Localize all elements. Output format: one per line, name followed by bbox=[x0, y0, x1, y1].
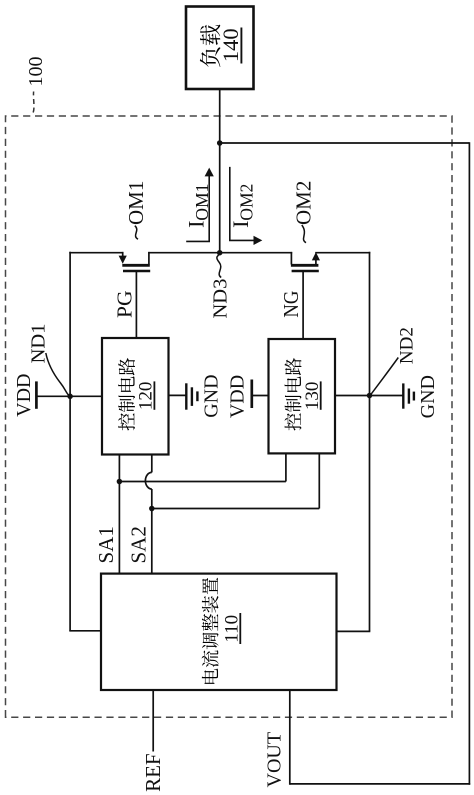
wire: NG gate line (control box 130 to OM2 gate) bbox=[302, 271, 304, 339]
svg-text:ND3: ND3 bbox=[209, 279, 231, 319]
label SA2 bbox=[126, 526, 150, 563]
svg-text:ND2: ND2 bbox=[396, 327, 417, 364]
wire: load box to VOUT node junction bbox=[219, 89, 221, 143]
svg-text:100: 100 bbox=[25, 57, 47, 87]
wire: bottom horizontal line (110 box to OM2 source, node ND2) bbox=[337, 252, 371, 632]
label NG bbox=[279, 291, 303, 318]
svg-text:140: 140 bbox=[218, 28, 243, 62]
label SA1 bbox=[94, 526, 118, 563]
wire: REF input with terminal tick bbox=[152, 690, 154, 752]
load box (负载 140) bbox=[186, 7, 254, 90]
wire: node ND1 down to control box 120 bbox=[70, 395, 102, 397]
junction dot: node ND2 bbox=[367, 393, 373, 399]
svg-text:NG: NG bbox=[279, 291, 303, 318]
power symbol VDD (above control box 130) bbox=[227, 375, 269, 418]
wire: VOUT net rail (right, bottom, left loop) bbox=[219, 142, 470, 785]
wire: PG gate line (control box 120 to OM1 gate) bbox=[135, 271, 137, 338]
control circuit box 130 (控制电路 130) bbox=[269, 339, 336, 453]
svg-text:VDD: VDD bbox=[13, 374, 35, 417]
ground symbol GND (at node ND2) bbox=[370, 375, 440, 418]
svg-text:GND: GND bbox=[417, 375, 439, 418]
wire: top horizontal line (110 box to OM1 source, node ND1) bbox=[69, 252, 101, 631]
label ND3 with squiggle leader bbox=[209, 254, 231, 319]
svg-text:SA1: SA1 bbox=[94, 526, 118, 563]
svg-text:REF: REF bbox=[141, 753, 165, 792]
ground symbol GND (below control box 120) bbox=[169, 374, 223, 417]
wire: SA1 (110 box to control box 120) bbox=[118, 455, 120, 574]
label I_OM1 bbox=[183, 184, 212, 228]
junction dot: SA1 branch bbox=[117, 479, 123, 485]
label VOUT bbox=[264, 732, 286, 788]
power symbol VDD (top, node ND1) bbox=[13, 374, 70, 417]
reference label 100 with dashed leader bbox=[25, 57, 47, 113]
svg-text:110: 110 bbox=[221, 615, 242, 643]
junction dot: node ND1 bbox=[67, 394, 73, 400]
current arrow I_OM2 bbox=[230, 167, 262, 245]
junction dot: SA2 branch bbox=[149, 506, 155, 512]
label PG bbox=[113, 291, 137, 318]
svg-text:OM1: OM1 bbox=[124, 181, 148, 225]
label I_OM2 bbox=[228, 184, 257, 228]
label ND2 with squiggle leader bbox=[371, 327, 418, 395]
svg-text:PG: PG bbox=[113, 291, 137, 318]
dashed boundary box of device 100 bbox=[6, 116, 453, 717]
wire: SA2 branch down to control box 130 bbox=[152, 453, 319, 508]
wire: common drain column (OM1/OM2 to ND3) bbox=[69, 252, 370, 254]
svg-text:VDD: VDD bbox=[227, 375, 249, 418]
svg-text:GND: GND bbox=[201, 374, 223, 417]
wire: ND3 node to VOUT junction bbox=[219, 143, 221, 253]
svg-text:120: 120 bbox=[136, 382, 157, 411]
label ND1 with squiggle leader bbox=[27, 324, 69, 396]
transistor OM2 (bottom, source arrow out of channel) bbox=[291, 252, 320, 271]
wire: SA1 branch down to control box 130 bbox=[119, 453, 286, 481]
junction dot: node ND3 bbox=[217, 250, 223, 256]
wire: SA2 (110 box to control box 120) with crossover hop bbox=[145, 455, 151, 574]
svg-text:130: 130 bbox=[302, 382, 323, 411]
junction dot: load/VOUT node bbox=[217, 140, 223, 146]
svg-text:SA2: SA2 bbox=[126, 526, 150, 563]
label REF bbox=[141, 753, 165, 792]
current arrow I_OM1 bbox=[186, 168, 214, 242]
svg-text:OM2: OM2 bbox=[292, 181, 316, 225]
label OM1 with tilde leader bbox=[124, 181, 148, 240]
wire: control box 130 down to node ND2 bbox=[335, 395, 370, 397]
control circuit box 120 (控制电路 120) bbox=[102, 338, 169, 455]
svg-text:ND1: ND1 bbox=[27, 324, 49, 364]
current adjusting device box 110 (电流调整装置 110) bbox=[101, 574, 337, 690]
transistor OM1 (top, source arrow into channel) bbox=[119, 252, 151, 271]
label OM2 with tilde leader bbox=[292, 181, 316, 243]
svg-text:VOUT: VOUT bbox=[264, 732, 286, 788]
